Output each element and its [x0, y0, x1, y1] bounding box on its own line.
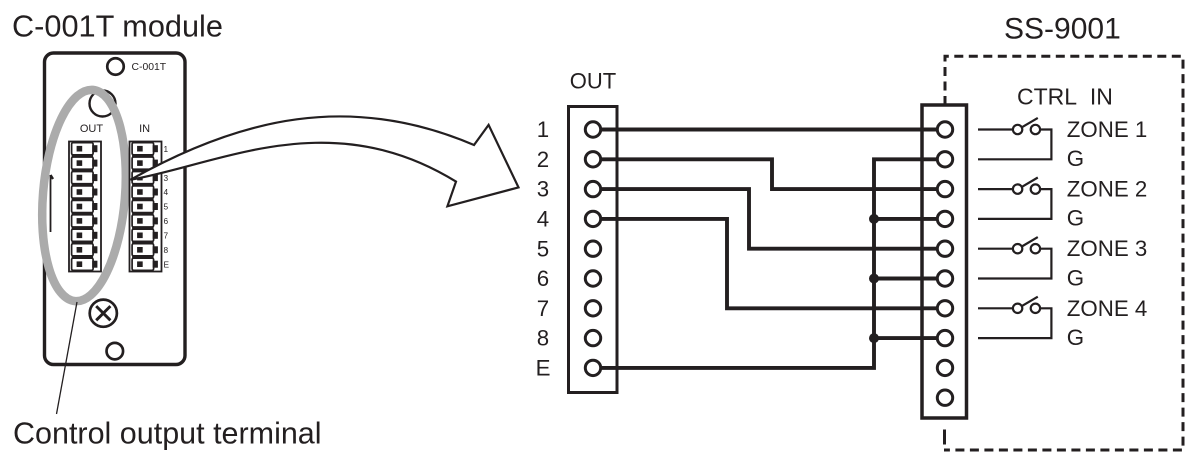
svg-text:6: 6 [164, 216, 169, 226]
svg-text:3: 3 [164, 173, 169, 183]
svg-text:IN: IN [139, 123, 150, 135]
svg-text:1: 1 [537, 117, 549, 142]
svg-text:Control output terminal: Control output terminal [13, 417, 322, 451]
svg-text:SS-9001: SS-9001 [1004, 13, 1121, 46]
svg-text:2: 2 [537, 147, 549, 172]
svg-text:G: G [1067, 325, 1084, 350]
svg-text:7: 7 [164, 231, 169, 241]
svg-text:ZONE 2: ZONE 2 [1067, 177, 1148, 202]
svg-text:OUT: OUT [80, 123, 104, 135]
svg-text:OUT: OUT [570, 69, 616, 94]
svg-text:G: G [1067, 265, 1084, 290]
svg-text:C-001T: C-001T [132, 62, 167, 73]
svg-text:ZONE 3: ZONE 3 [1067, 236, 1148, 261]
svg-text:3: 3 [537, 177, 549, 202]
svg-text:C-001T module: C-001T module [12, 9, 223, 44]
svg-text:5: 5 [537, 236, 549, 261]
svg-text:E: E [164, 259, 170, 269]
svg-text:7: 7 [537, 296, 549, 321]
svg-text:G: G [1067, 206, 1084, 231]
svg-text:ZONE 4: ZONE 4 [1067, 296, 1148, 321]
svg-text:4: 4 [537, 207, 549, 232]
svg-text:4: 4 [164, 187, 169, 197]
svg-text:G: G [1067, 146, 1084, 171]
svg-text:CTRL IN: CTRL IN [1017, 83, 1113, 109]
svg-text:8: 8 [537, 326, 549, 351]
svg-text:1: 1 [164, 144, 169, 154]
svg-text:6: 6 [537, 266, 549, 291]
svg-text:8: 8 [164, 245, 169, 255]
svg-text:5: 5 [164, 202, 169, 212]
svg-text:E: E [536, 356, 551, 381]
svg-text:ZONE 1: ZONE 1 [1067, 117, 1148, 142]
